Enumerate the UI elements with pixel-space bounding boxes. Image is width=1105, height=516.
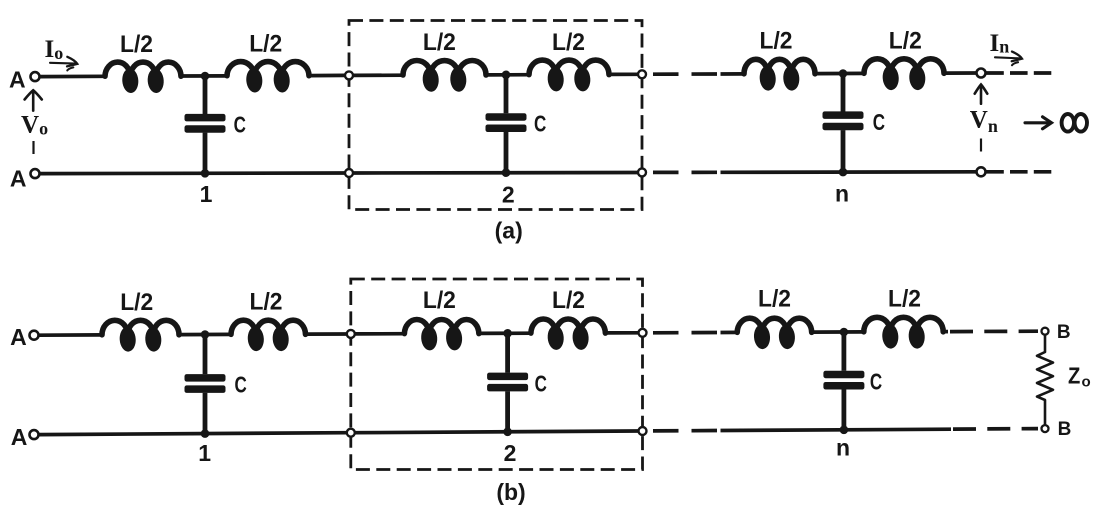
svg-text:C: C [535, 371, 547, 397]
wire (b) top: terminal A to inductor [39, 333, 103, 337]
inductor L/2 (a) section 1 right [227, 62, 309, 93]
current arrow In [995, 52, 1022, 66]
inductor L/2 (a) section 1 left [105, 62, 181, 93]
junction node n bottom (b) [840, 426, 849, 435]
wire (a) top: dashed line beyond output terminal [986, 71, 1051, 75]
inductor L/2 (b) section 1 left [102, 320, 179, 352]
open node at box left edge, top wire (a) [345, 71, 353, 79]
svg-text:o: o [1082, 374, 1091, 391]
capacitor C (b) section 2 [487, 333, 528, 432]
svg-text:C: C [873, 109, 885, 135]
wire (b) bottom: terminal A to box edge [39, 433, 347, 435]
svg-text:C: C [235, 372, 247, 398]
svg-text:A: A [10, 324, 27, 350]
open node at box left edge, bottom wire (b) [347, 429, 355, 437]
svg-text:L/2: L/2 [888, 285, 921, 312]
inductor L/2 (a) section 2 right [529, 60, 609, 92]
svg-text:(a): (a) [495, 217, 523, 243]
wire (a) top: dashed continuation between section 2 and section n [653, 72, 719, 76]
wire (b) top: short lead after inductor [943, 330, 948, 334]
terminal A top-left (b) [30, 331, 39, 340]
wire (a) bottom: terminal A to box edge [40, 171, 345, 175]
terminal B top (b) [1042, 328, 1049, 335]
svg-text:B: B [1057, 322, 1071, 343]
svg-text:A: A [9, 67, 26, 93]
output terminal top (a) [977, 69, 986, 78]
wire (a) bottom: dashed line beyond output terminal [986, 170, 1051, 174]
wire (b) bottom: dashed line to terminal B [953, 427, 1038, 431]
open node at box right edge, bottom wire (a) [638, 168, 646, 176]
svg-text:(b): (b) [496, 479, 525, 505]
junction node 2 top (a) [502, 71, 511, 80]
svg-text:C: C [234, 112, 246, 138]
svg-text:L/2: L/2 [423, 29, 456, 56]
output terminal bottom (a) [977, 167, 986, 176]
junction node 2 bottom (a) [502, 168, 511, 177]
terminal A top-left (a) [31, 72, 40, 81]
open node at box left edge, top wire (b) [347, 330, 355, 338]
svg-text:L/2: L/2 [249, 31, 282, 58]
inductor L/2 (a) section n right [864, 59, 944, 91]
svg-text:L/2: L/2 [889, 27, 922, 54]
wire (b) top: to box right edge [605, 331, 638, 335]
voltage arrow Vn [975, 85, 988, 104]
open node at box left edge, bottom wire (a) [345, 169, 353, 177]
svg-text:B: B [1058, 419, 1072, 440]
inductor L/2 (a) section n left [744, 59, 815, 91]
svg-text:L/2: L/2 [552, 287, 585, 314]
arrow to infinity [1025, 117, 1052, 129]
wire (b) bottom: across box [355, 431, 639, 433]
inductor L/2 (b) section 2 left [404, 320, 478, 351]
wire (a) top: L/2 #3 to L/2 #4 through node 2 [486, 73, 530, 77]
resistor Zo termination [1037, 335, 1053, 426]
svg-text:A: A [10, 165, 27, 191]
capacitor C (a) section 1 [185, 76, 226, 173]
wire (a) top: terminal A to inductor L/2 #1 [40, 74, 106, 78]
inductor L/2 (b) section 1 right [231, 320, 305, 351]
junction node 1 bottom (b) [201, 429, 210, 438]
svg-text:n: n [836, 435, 850, 461]
wire (a) top: L/2 #1 to L/2 #2 through node 1 [181, 74, 228, 78]
wire (a) top: L/2 #5 to L/2 #6 through node n [815, 72, 865, 76]
svg-text:L/2: L/2 [760, 27, 793, 54]
wire (b) top: through node n [812, 330, 865, 334]
wire (b) top: box edge to inductor [355, 332, 406, 336]
dashed box around section 2 of diagram (a) [349, 21, 642, 210]
capacitor C (a) section n [823, 74, 864, 173]
terminal A bottom-left (a) [31, 169, 40, 178]
wire (b) top: dashed line to terminal B [950, 329, 1038, 333]
wire (a) bottom: box to box right edge [354, 171, 639, 175]
terminal B bottom (b) [1042, 425, 1049, 432]
junction node 1 top (b) [201, 330, 210, 339]
current arrow Io [50, 57, 77, 71]
voltage reference dash Vo [32, 141, 34, 154]
svg-text:L/2: L/2 [120, 31, 153, 58]
wire (a) top: L/2 #4 to box edge [609, 72, 638, 76]
inductor L/2 (a) section 2 left [403, 60, 486, 92]
wire (b) top: to box edge [306, 332, 347, 336]
wire (b) top: through node 1 [179, 333, 232, 337]
wire (b) top: through node 2 [479, 331, 532, 335]
wire (a) top: into L/2 #5 [721, 72, 746, 76]
junction node 2 bottom (b) [503, 428, 512, 437]
svg-text:C: C [534, 111, 546, 137]
wire (a) top: box edge to L/2 #3 [354, 73, 405, 77]
svg-text:L/2: L/2 [250, 289, 283, 316]
inductor L/2 (b) section n right [864, 317, 943, 349]
svg-text:1: 1 [200, 181, 213, 207]
svg-text:L/2: L/2 [120, 289, 153, 316]
junction node 2 top (b) [503, 329, 512, 338]
svg-text:L/2: L/2 [552, 29, 585, 56]
open node at box right edge, top wire (b) [639, 329, 647, 337]
svg-text:2: 2 [502, 181, 515, 207]
capacitor C (b) section 1 [185, 335, 226, 434]
inductor L/2 (b) section n left [737, 318, 811, 349]
open node at box right edge, top wire (a) [638, 70, 646, 78]
wire (b) bottom: dashed continuation [653, 429, 719, 433]
junction node 1 bottom (a) [201, 169, 210, 178]
junction node 1 top (a) [201, 72, 210, 81]
wire (b) top: dashed continuation between section 2 and section n [653, 331, 719, 335]
wire (b) top: into section n [721, 331, 739, 335]
svg-text:L/2: L/2 [423, 287, 456, 314]
svg-text:L/2: L/2 [758, 285, 791, 312]
wire (b) bottom: to dashes at right [721, 429, 952, 430]
svg-text:A: A [11, 424, 28, 450]
junction node n top (b) [840, 328, 849, 337]
svg-text:1: 1 [198, 440, 211, 466]
wire (a) top: L/2 #2 to box edge [309, 74, 345, 78]
junction node n top (a) [839, 69, 848, 78]
wire (a) bottom: to output terminal [721, 170, 977, 174]
svg-text:C: C [870, 369, 882, 395]
voltage arrow Vo [25, 90, 42, 110]
voltage reference dash Vn [980, 139, 982, 152]
capacitor C (b) section n [823, 332, 864, 430]
svg-text:2: 2 [504, 440, 517, 466]
svg-text:Z: Z [1068, 363, 1080, 389]
svg-text:n: n [835, 181, 849, 207]
terminal A bottom-left (b) [30, 430, 39, 439]
dashed box around section 2 of diagram (b) [351, 279, 643, 470]
capacitor C (a) section 2 [486, 75, 527, 173]
inductor L/2 (b) section 2 right [531, 319, 605, 350]
open node at box right edge, bottom wire (b) [639, 427, 647, 435]
junction node n bottom (a) [839, 168, 848, 177]
infinity symbol [1062, 114, 1087, 132]
wire (a) top: L/2 #6 to output terminal [944, 71, 977, 75]
wire (a) bottom: dashed continuation between section 2 and section n [653, 170, 719, 174]
